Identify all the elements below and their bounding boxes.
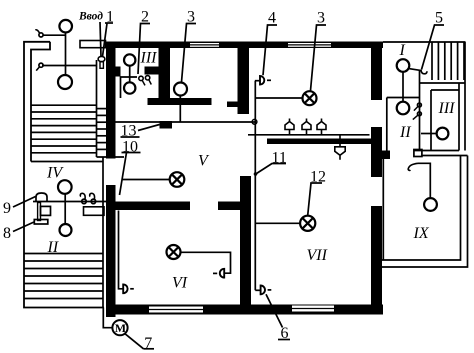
lamp III right [437, 128, 449, 140]
svg-text:1: 1 [106, 9, 114, 26]
leader 1 [105, 22, 113, 24]
switch outside [39, 33, 43, 37]
left flat wire [33, 201, 106, 203]
window bottom 1 [149, 307, 203, 313]
wall center upper [238, 47, 250, 114]
svg-text:9: 9 [3, 200, 11, 217]
socket VI right [220, 269, 224, 278]
lamp IV [58, 180, 72, 194]
room III right inner top [431, 89, 459, 91]
wall II/III right [419, 71, 421, 151]
wall right middle segment [371, 127, 382, 177]
svg-text:12: 12 [310, 169, 326, 186]
wall outer left [24, 42, 104, 308]
svg-text:II: II [47, 239, 59, 256]
leader 3b [311, 25, 327, 91]
lamp 3 room [174, 83, 187, 96]
THICK WALLS [106, 42, 390, 318]
leader 11 [257, 164, 287, 174]
bells wire [248, 134, 370, 136]
stair mid line [96, 60, 98, 157]
room III right inner left [430, 90, 432, 151]
leader 2 [138, 24, 150, 75]
wall top main [106, 42, 383, 49]
leader 7 [125, 334, 144, 349]
junction dot [252, 119, 257, 124]
svg-text:I: I [399, 42, 406, 59]
wire to lamp IX [418, 163, 430, 198]
room III right outer right wall [458, 83, 460, 151]
bell inverted [335, 135, 345, 160]
stairs upper flight [31, 105, 97, 153]
room IX bottom outer [382, 156, 468, 268]
leader 9 [13, 197, 36, 208]
wall right stub east [381, 151, 390, 160]
svg-text:5: 5 [435, 10, 443, 27]
svg-text:11: 11 [272, 150, 287, 167]
wall stub III interior [145, 67, 159, 75]
riser wire [254, 81, 256, 291]
outer right boundary upper [464, 42, 466, 151]
wall right upper segment [371, 47, 382, 100]
wall center lower [240, 176, 251, 309]
svg-text:IV: IV [46, 165, 64, 182]
wire between [129, 66, 131, 83]
window top 2 [288, 43, 331, 47]
wall left upper segment [106, 42, 116, 159]
door rect IX [414, 150, 422, 157]
room III right bottom [414, 150, 459, 152]
stair bottom line right [420, 82, 466, 84]
svg-text:13: 13 [121, 123, 137, 140]
bell 2 [302, 119, 311, 135]
socket 4 [260, 76, 264, 85]
switch IX [408, 163, 418, 170]
lamp outside top [59, 20, 72, 33]
switch stairwell [39, 63, 43, 67]
wall V-VI west segment [115, 202, 190, 211]
wire stair upper [42, 65, 97, 67]
box below [38, 203, 41, 221]
leader 13 [121, 136, 140, 138]
meter dome 9 [36, 193, 47, 202]
leader 3 [182, 24, 197, 83]
svg-text:Ввод: Ввод [78, 11, 103, 23]
lamp III bottom [124, 82, 135, 93]
room IX left wall [382, 159, 384, 260]
svg-text:3: 3 [317, 10, 325, 27]
motor M [112, 320, 127, 335]
room IX top line [422, 155, 468, 157]
wall cap at entrance [31, 42, 50, 162]
bell 3 [317, 119, 326, 135]
vestibule II left [386, 98, 388, 156]
double switch right [417, 103, 421, 107]
switch squiggle 2 [91, 199, 96, 204]
wire to lamp 12 [256, 222, 301, 224]
svg-text:M: M [115, 321, 126, 335]
svg-text:III: III [438, 100, 456, 117]
lamp II right [397, 102, 410, 115]
stairs lower flight [24, 254, 103, 299]
svg-text:VII: VII [307, 247, 328, 264]
leader 4 [263, 25, 277, 75]
svg-text:II: II [399, 124, 411, 141]
wire between lamps [64, 193, 66, 224]
canopy porch [80, 41, 106, 48]
svg-text:7: 7 [144, 335, 152, 352]
thin closet lines [121, 77, 138, 98]
stairs right vertical [432, 43, 464, 81]
switch double room III [139, 76, 143, 80]
junction dot 11 [254, 172, 258, 176]
leader 10 [122, 152, 141, 154]
svg-text:3: 3 [187, 9, 195, 26]
device 8 bar [34, 220, 48, 225]
lamp I [397, 59, 410, 72]
switch squiggle 1 [82, 199, 87, 204]
vestibule II top [387, 97, 420, 99]
landing line [97, 156, 125, 158]
wall bell corridor bar [267, 139, 371, 145]
top boundary right annex [383, 41, 466, 43]
entry device Vvod [98, 56, 105, 61]
socket 6 [255, 289, 260, 291]
hook near door [409, 69, 422, 71]
room VI lamp [167, 245, 181, 259]
wall V-VI east segment [218, 202, 251, 211]
room IV top line [31, 161, 103, 163]
door rect IV [84, 207, 105, 216]
wire lamp3 down [179, 96, 181, 123]
lamp stairwell [58, 75, 72, 89]
svg-text:2: 2 [141, 9, 149, 26]
room IX bottom inner [380, 156, 461, 261]
wire lamp I to II [402, 72, 404, 102]
leader 8 [13, 222, 34, 232]
window top 1 [190, 43, 219, 47]
wire switch to lamp [43, 34, 65, 36]
svg-text:VI: VI [172, 275, 188, 292]
wire to X lamp top [256, 97, 303, 99]
leader 5 [422, 25, 445, 70]
stairs upper right flight [97, 109, 107, 150]
wire y122 room V [115, 121, 255, 123]
lamp II left [60, 224, 72, 236]
wall stub on left wall in III [115, 67, 121, 77]
bell 1 [285, 119, 294, 135]
wall right lower segment [371, 206, 382, 314]
svg-text:4: 4 [268, 10, 276, 27]
lamp III top [124, 54, 135, 65]
leader 6 [266, 294, 283, 327]
wall left lower segment [106, 185, 116, 317]
wire to motor [103, 308, 112, 328]
wire lamp down [65, 32, 67, 75]
wall bottom main [106, 305, 383, 315]
svg-text:IX: IX [413, 225, 430, 242]
corridor line x103 [102, 157, 104, 308]
svg-text:10: 10 [122, 139, 138, 156]
X lamp 12 [300, 216, 315, 231]
wall room III bottom [148, 98, 212, 105]
leader Vvod lines [100, 22, 101, 57]
room V lamp [170, 172, 185, 187]
X lamp top right [303, 91, 317, 105]
socket VI left [119, 211, 124, 289]
wall center upper stub [227, 102, 239, 108]
svg-text:III: III [140, 50, 158, 67]
svg-text:8: 8 [3, 225, 11, 242]
leader 12 [308, 183, 322, 216]
window bottom 2 [292, 306, 334, 312]
junction box 13 [160, 121, 173, 129]
svg-text:6: 6 [281, 325, 289, 342]
wall room III left, right side [159, 47, 171, 99]
